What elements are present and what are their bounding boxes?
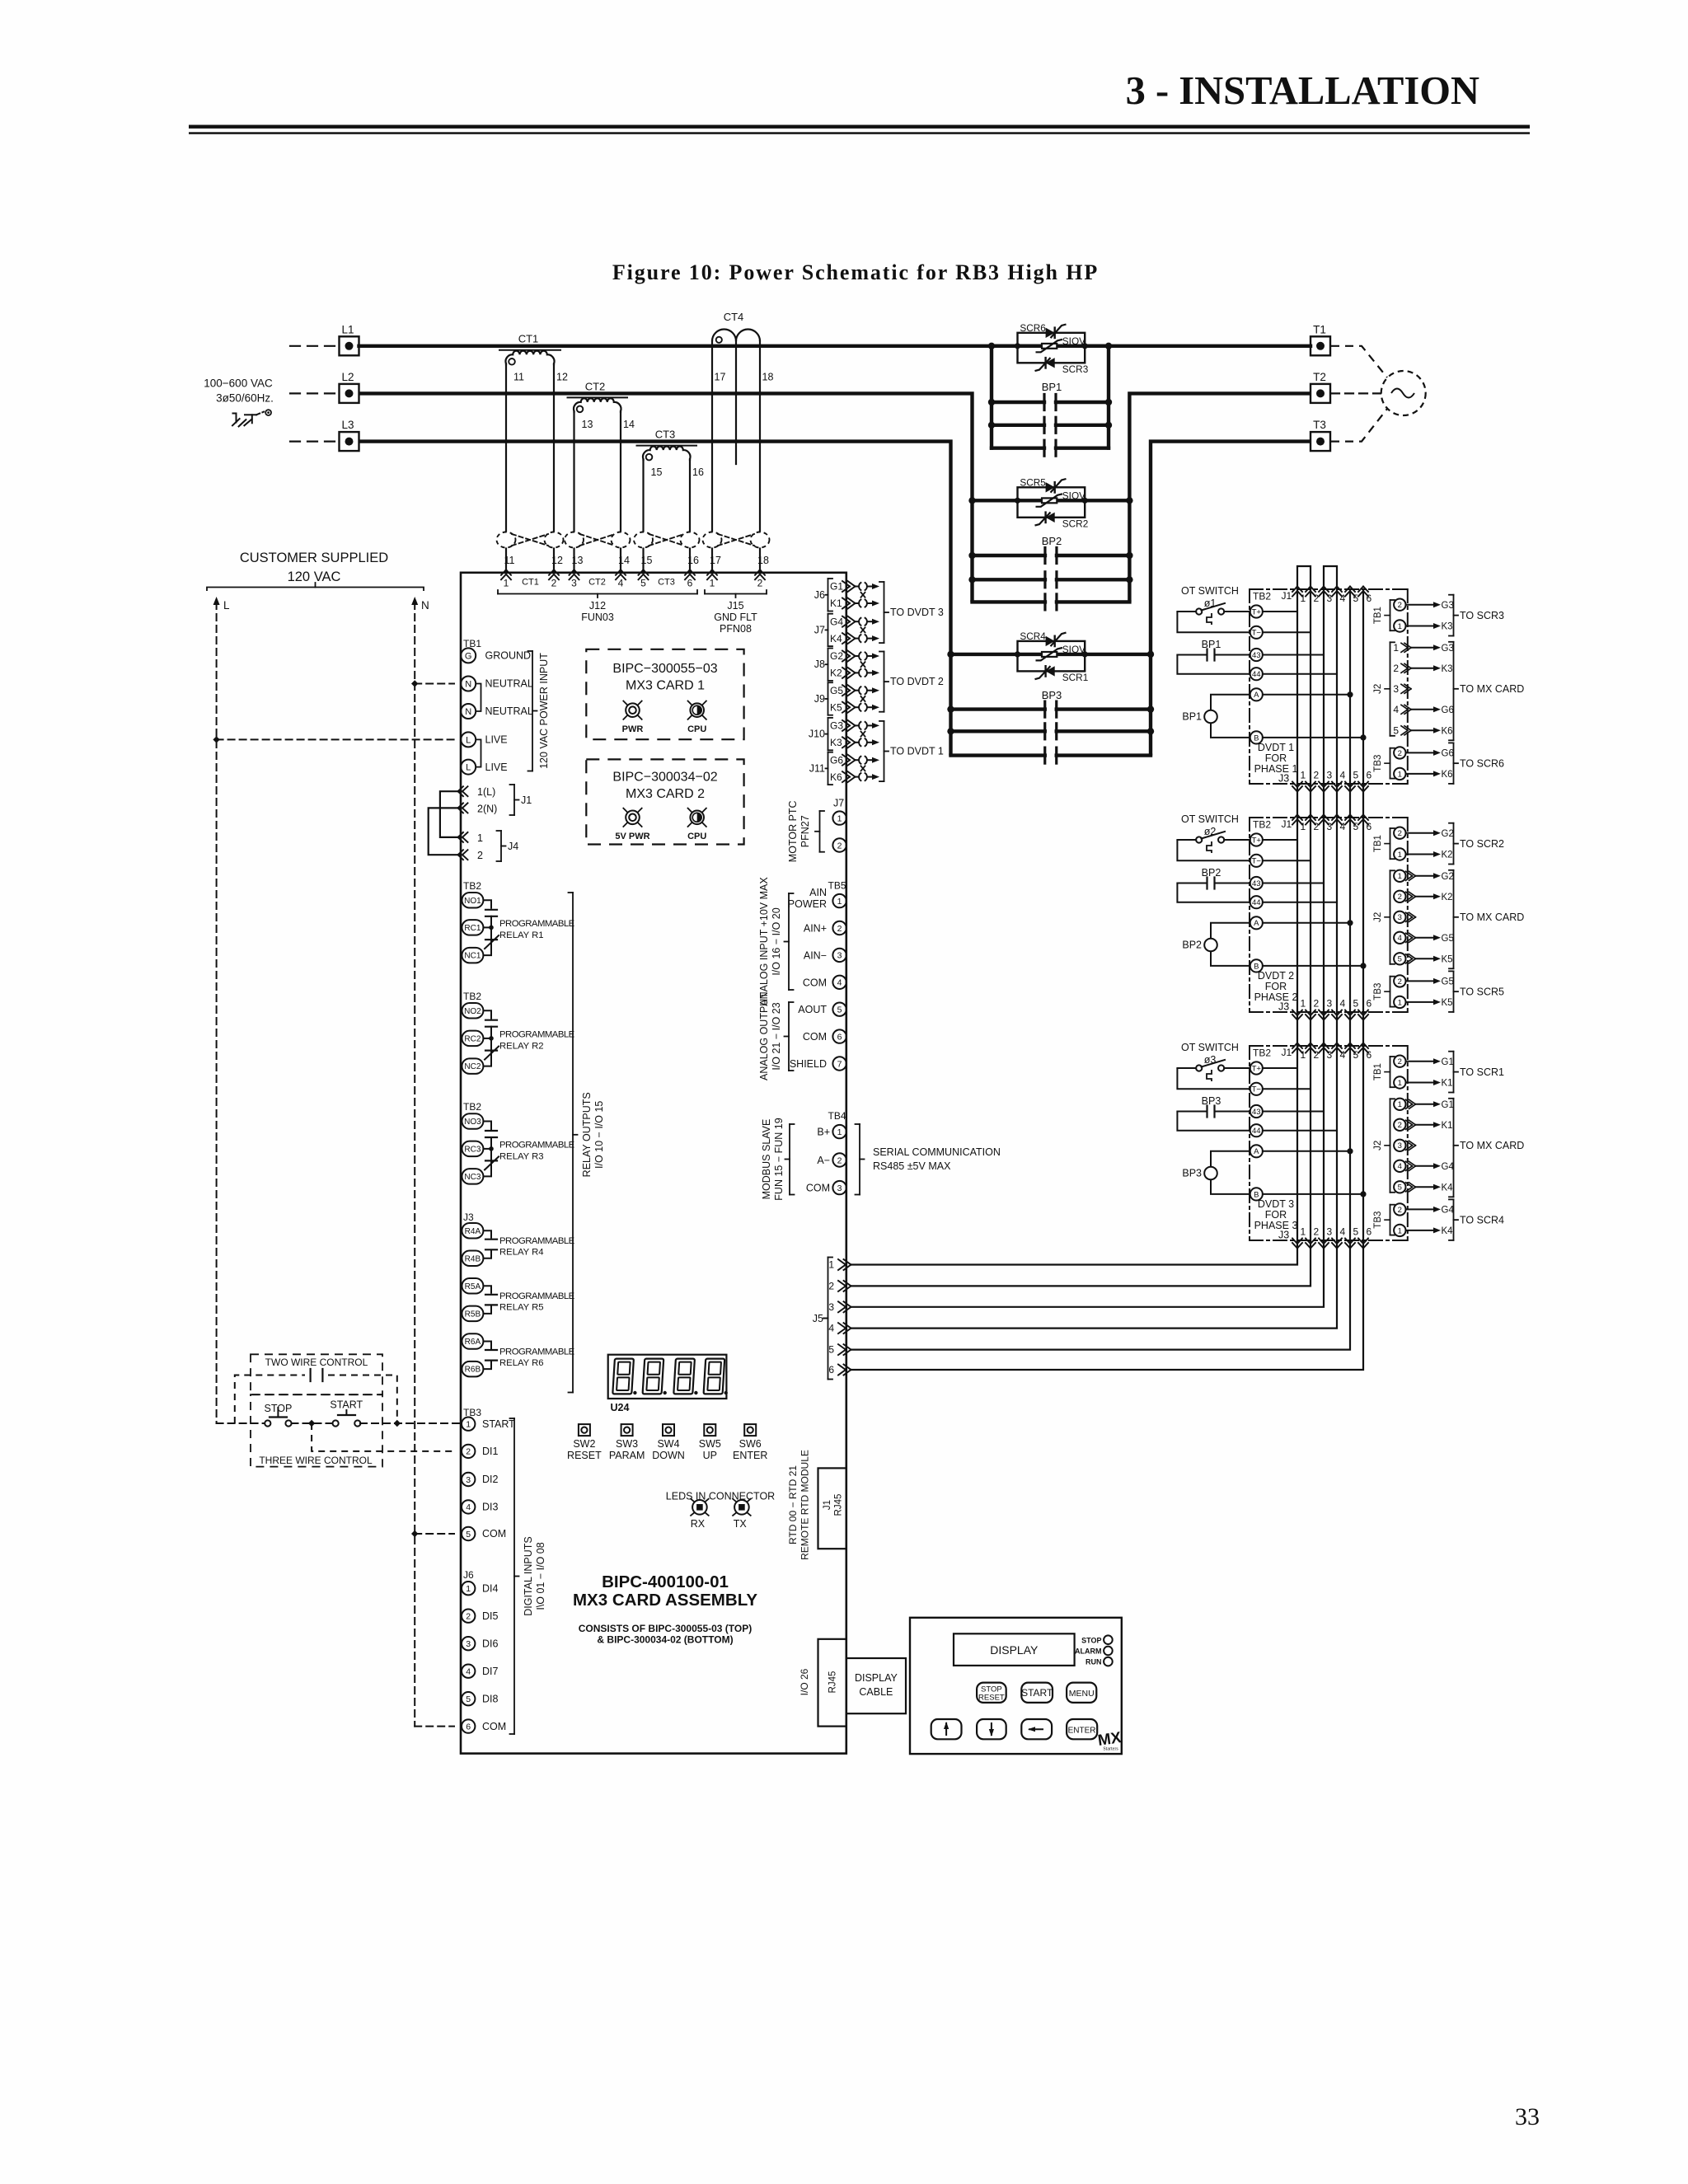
svg-text:TB1: TB1 xyxy=(1373,607,1383,624)
wire J5-5 to DVDT chain xyxy=(851,1240,1351,1350)
svg-text:3: 3 xyxy=(1327,821,1333,832)
svg-text:J3: J3 xyxy=(1278,773,1289,785)
svg-text:K5: K5 xyxy=(1442,955,1453,965)
svg-text:14: 14 xyxy=(623,419,635,430)
wire chain column 3 xyxy=(1323,1046,1325,1240)
contact BP3 pole xyxy=(951,729,1045,733)
svg-text:1: 1 xyxy=(1301,998,1306,1010)
contact BP3 pole xyxy=(951,707,1045,710)
svg-text:G5: G5 xyxy=(830,685,843,696)
svg-text:TX: TX xyxy=(734,1518,748,1530)
svg-text:RTD 00 − RTD 21: RTD 00 − RTD 21 xyxy=(787,1465,799,1544)
pin J12-3 xyxy=(570,569,574,575)
pin TB3-2 xyxy=(1394,747,1405,758)
svg-text:1: 1 xyxy=(1301,1226,1306,1238)
terminal TB1 GROUND xyxy=(461,648,476,663)
svg-text:A: A xyxy=(1254,1147,1259,1156)
wire NO to contact xyxy=(484,900,492,909)
junction diamonds control xyxy=(308,1420,315,1427)
pin J12-4 xyxy=(616,569,621,575)
svg-text:2: 2 xyxy=(477,850,483,861)
pin TB1-1 xyxy=(1394,848,1405,860)
wire 44 to col4 xyxy=(1263,673,1337,675)
ANALOG OUTPUT bracket xyxy=(788,1002,790,1071)
terminal TB2 44 xyxy=(1250,1124,1263,1137)
ANALOG INPUT bracket xyxy=(788,893,790,990)
wire T+ to col1 xyxy=(1263,611,1297,612)
svg-text:TB2: TB2 xyxy=(1253,1047,1271,1059)
svg-text:2: 2 xyxy=(1398,829,1402,838)
svg-text:NO1: NO1 xyxy=(464,897,481,906)
svg-text:K5: K5 xyxy=(1442,998,1453,1008)
svg-text:START: START xyxy=(330,1399,363,1411)
terminal block TB1 outputs xyxy=(1390,828,1391,859)
svg-text:PROGRAMMABLE: PROGRAMMABLE xyxy=(499,919,575,929)
svg-text:K2: K2 xyxy=(1442,851,1453,860)
pin J6-4 DI7 xyxy=(462,1665,475,1678)
svg-text:SW2: SW2 xyxy=(573,1438,595,1450)
svg-text:SW4: SW4 xyxy=(657,1438,679,1450)
connector J15 label xyxy=(705,593,767,595)
wire BP1 right rail xyxy=(1107,346,1110,448)
svg-text:NEUTRAL: NEUTRAL xyxy=(485,678,533,690)
wire CT3 secondary leads 15/16 xyxy=(642,459,644,573)
svg-text:4: 4 xyxy=(466,1502,471,1512)
wire A to col5 xyxy=(1263,922,1350,924)
connector J2 outputs xyxy=(1390,1099,1391,1193)
wire riser to T2 xyxy=(1129,393,1311,602)
pin TB3-1 xyxy=(1394,1225,1405,1236)
jumper L-L xyxy=(476,739,481,766)
svg-text:PROGRAMMABLE: PROGRAMMABLE xyxy=(499,1140,575,1150)
svg-text:1: 1 xyxy=(466,1419,471,1429)
jumper J1 pins1-2 (block1) xyxy=(1297,566,1311,589)
svg-text:TO MX CARD: TO MX CARD xyxy=(1460,912,1524,923)
svg-text:PHASE 2: PHASE 2 xyxy=(1254,991,1298,1003)
terminal T3 xyxy=(1311,432,1330,451)
svg-text:4: 4 xyxy=(1393,704,1399,715)
SCR pair block SCR5/SCR2 with SIOV xyxy=(973,499,1018,502)
svg-text:3 - INSTALLATION: 3 - INSTALLATION xyxy=(1126,69,1479,113)
svg-text:R4A: R4A xyxy=(465,1227,481,1236)
svg-text:1: 1 xyxy=(1301,593,1306,604)
junction dots power section xyxy=(988,343,995,349)
svg-text:SCR1: SCR1 xyxy=(1062,672,1088,683)
svg-text:TB3: TB3 xyxy=(1373,755,1383,772)
svg-text:DI8: DI8 xyxy=(482,1693,499,1704)
terminal TB1 NEUTRAL xyxy=(461,677,476,691)
svg-text:MX3 CARD ASSEMBLY: MX3 CARD ASSEMBLY xyxy=(573,1591,757,1610)
wire chain between block2 and block3 xyxy=(1296,1012,1298,1046)
svg-text:SHIELD: SHIELD xyxy=(790,1058,827,1070)
svg-text:4: 4 xyxy=(1398,1162,1402,1171)
svg-text:TB1: TB1 xyxy=(1373,835,1383,852)
svg-text:1: 1 xyxy=(1398,770,1402,779)
terminal L3 xyxy=(290,440,336,442)
wire chain column 2 xyxy=(1310,589,1311,784)
terminal TB5-6 xyxy=(832,1029,846,1043)
svg-text:1: 1 xyxy=(1398,1226,1402,1235)
wire riser to T3 xyxy=(1151,442,1311,756)
svg-text:1: 1 xyxy=(1398,998,1402,1007)
svg-text:J1: J1 xyxy=(1282,1047,1292,1058)
svg-text:K2: K2 xyxy=(1442,893,1453,902)
svg-text:SCR4: SCR4 xyxy=(1020,630,1046,642)
svg-text:THREE WIRE CONTROL: THREE WIRE CONTROL xyxy=(259,1455,373,1466)
svg-text:RELAY R3: RELAY R3 xyxy=(499,1151,544,1161)
svg-text:J3: J3 xyxy=(463,1212,474,1223)
svg-text:TO SCR2: TO SCR2 xyxy=(1460,838,1504,850)
svg-text:4: 4 xyxy=(1340,593,1346,604)
svg-text:2: 2 xyxy=(828,1280,834,1291)
LED CPU card2 xyxy=(690,811,704,825)
wire 43 to col3 xyxy=(1263,654,1324,656)
svg-text:I/O 10 − I/O 15: I/O 10 − I/O 15 xyxy=(593,1101,605,1169)
svg-text:DIGITAL INPUTS: DIGITAL INPUTS xyxy=(523,1536,534,1616)
svg-text:TO SCR4: TO SCR4 xyxy=(1460,1214,1504,1226)
svg-text:G4: G4 xyxy=(1442,1162,1455,1172)
svg-text:TO SCR3: TO SCR3 xyxy=(1460,610,1504,621)
wire start branch to DI1 (dashed) xyxy=(312,1423,454,1451)
wire chain column 1 xyxy=(1296,589,1298,784)
connector J12 label xyxy=(498,593,697,595)
wire J1.2 to J4.2 xyxy=(429,808,461,855)
svg-text:43: 43 xyxy=(1252,1108,1261,1117)
svg-text:POWER: POWER xyxy=(788,898,827,910)
twisted-pair symbol xyxy=(634,532,653,548)
svg-text:NO3: NO3 xyxy=(464,1118,481,1127)
svg-text:SW3: SW3 xyxy=(616,1438,638,1450)
LED 5V PWR xyxy=(626,811,640,825)
terminal block TB3 outputs xyxy=(1390,1205,1391,1235)
svg-text:DVDT 3: DVDT 3 xyxy=(1258,1198,1294,1210)
ground symbol xyxy=(232,414,237,424)
svg-text:MX3 CARD 2: MX3 CARD 2 xyxy=(626,787,705,801)
svg-text:CT2: CT2 xyxy=(588,578,606,588)
terminal TB2 T− xyxy=(1250,626,1263,639)
svg-text:12: 12 xyxy=(556,372,568,383)
svg-text:CABLE: CABLE xyxy=(859,1686,893,1698)
svg-text:J7: J7 xyxy=(814,624,825,635)
wire chain between block1 and block2 xyxy=(1296,784,1298,818)
svg-text:18: 18 xyxy=(762,372,774,383)
svg-text:START: START xyxy=(482,1418,515,1430)
relay R4 terminals xyxy=(462,1223,483,1239)
wire chain column 4 xyxy=(1336,589,1338,784)
svg-text:4: 4 xyxy=(466,1666,471,1676)
svg-text:G2: G2 xyxy=(1442,829,1454,839)
terminal TB5-7 xyxy=(832,1057,846,1070)
svg-text:15: 15 xyxy=(651,466,663,478)
svg-text:TB2: TB2 xyxy=(463,1101,481,1113)
svg-text:TO SCR5: TO SCR5 xyxy=(1460,986,1504,997)
terminal TB1 LIVE xyxy=(461,760,476,775)
svg-text:L2: L2 xyxy=(341,371,354,383)
svg-text:5: 5 xyxy=(1353,593,1359,604)
wire chain column 3 xyxy=(1323,818,1325,1012)
wire J5-2 to DVDT chain xyxy=(851,1240,1311,1286)
L supply arrow xyxy=(216,602,218,1423)
svg-text:PHASE 1: PHASE 1 xyxy=(1254,763,1298,775)
svg-text:3: 3 xyxy=(1327,1049,1333,1061)
pin J6-3 DI6 xyxy=(462,1637,475,1650)
svg-text:UP: UP xyxy=(703,1450,717,1461)
pin J12-2 xyxy=(549,569,554,575)
wire chain column 4 xyxy=(1336,818,1338,1012)
svg-text:RESET: RESET xyxy=(567,1450,602,1461)
svg-text:3: 3 xyxy=(1327,1226,1333,1238)
svg-text:43: 43 xyxy=(1252,879,1261,888)
svg-text:4: 4 xyxy=(1340,821,1346,832)
svg-text:TO MX CARD: TO MX CARD xyxy=(1460,683,1524,695)
daughter card BIPC-300034-02 MX3 CARD 2 xyxy=(586,759,743,844)
svg-text:L3: L3 xyxy=(341,419,354,431)
svg-text:3: 3 xyxy=(466,1639,471,1649)
connector J2 outputs xyxy=(1390,870,1391,964)
svg-text:BP2: BP2 xyxy=(1202,867,1221,879)
svg-text:ALARM: ALARM xyxy=(1075,1647,1102,1656)
svg-text:CT4: CT4 xyxy=(724,311,744,323)
svg-text:TO DVDT 2: TO DVDT 2 xyxy=(890,676,944,687)
svg-text:G4: G4 xyxy=(1442,1206,1455,1216)
pin J15-2 xyxy=(755,569,760,575)
terminal TB3-2 DI1 xyxy=(462,1445,475,1458)
svg-text:2: 2 xyxy=(1393,663,1399,674)
svg-text:3: 3 xyxy=(466,1475,471,1485)
svg-text:MOTOR PTC: MOTOR PTC xyxy=(787,800,799,862)
pin J6-6 COM xyxy=(462,1719,475,1732)
svg-text:NEUTRAL: NEUTRAL xyxy=(485,705,533,717)
svg-text:DVDT 1: DVDT 1 xyxy=(1258,742,1294,753)
RELAY OUTPUTS group bracket xyxy=(572,893,574,1393)
svg-text:K4: K4 xyxy=(1442,1226,1454,1236)
wire N to TB3 COM (dashed) xyxy=(411,1530,418,1537)
svg-text:DI1: DI1 xyxy=(482,1446,499,1457)
pin J6-1 DI4 xyxy=(462,1582,475,1595)
svg-text:SIOV: SIOV xyxy=(1062,335,1085,347)
7-segment display U24 xyxy=(608,1355,727,1399)
pin J12-6 xyxy=(685,569,690,575)
wire OT switch loop xyxy=(1177,611,1196,612)
svg-text:TO SCR1: TO SCR1 xyxy=(1460,1066,1504,1078)
svg-text:NO2: NO2 xyxy=(464,1007,481,1016)
pin TB1-1 xyxy=(1394,620,1405,631)
svg-text:J6: J6 xyxy=(814,589,825,601)
svg-text:7: 7 xyxy=(837,1059,842,1069)
contact BP2 pole xyxy=(973,554,1045,557)
svg-text:2: 2 xyxy=(551,578,557,589)
wire B to col6 xyxy=(1263,965,1363,967)
svg-text:PWR: PWR xyxy=(622,724,644,734)
svg-text:G6: G6 xyxy=(1442,705,1454,715)
svg-text:G3: G3 xyxy=(1442,644,1454,654)
svg-text:44: 44 xyxy=(1252,670,1261,679)
svg-text:BIPC−300034−02: BIPC−300034−02 xyxy=(612,770,717,784)
contact two-wire xyxy=(310,1369,312,1381)
svg-text:1: 1 xyxy=(1301,770,1306,781)
svg-text:2: 2 xyxy=(1314,1226,1320,1238)
terminal TB2 A xyxy=(1250,1145,1263,1157)
wire chain column 2 xyxy=(1310,1046,1311,1240)
svg-text:2: 2 xyxy=(1314,1049,1320,1061)
svg-text:FOR: FOR xyxy=(1265,752,1287,764)
pin J12-5 xyxy=(639,569,644,575)
wire chain column 1 xyxy=(1296,818,1298,1012)
svg-text:6: 6 xyxy=(837,1032,842,1042)
wire J5-6 to DVDT chain xyxy=(851,1240,1364,1370)
terminal L2 xyxy=(290,392,336,394)
svg-text:4: 4 xyxy=(1340,770,1346,781)
wire L to LIVE (dashed) xyxy=(213,736,219,743)
terminal TB2 A xyxy=(1250,916,1263,929)
wire 44 to col4 xyxy=(1263,1130,1337,1132)
svg-text:CUSTOMER SUPPLIED: CUSTOMER SUPPLIED xyxy=(240,551,388,565)
svg-text:A: A xyxy=(1254,691,1259,700)
motor (dashed) xyxy=(1381,371,1426,415)
terminal TB5-2 xyxy=(832,921,846,935)
varistor SIOV xyxy=(1042,652,1057,657)
svg-text:J2: J2 xyxy=(1373,912,1383,922)
svg-text:ENTER: ENTER xyxy=(1068,1726,1096,1735)
svg-text:R6A: R6A xyxy=(465,1338,481,1347)
svg-text:1: 1 xyxy=(710,578,715,589)
svg-text:4: 4 xyxy=(618,578,624,589)
svg-text:PFN08: PFN08 xyxy=(720,623,752,635)
svg-text:CONSISTS OF BIPC-300055-03 (TO: CONSISTS OF BIPC-300055-03 (TOP) xyxy=(579,1623,753,1634)
wire CT4 leads 17/18 xyxy=(711,341,713,573)
pin TB3-1 xyxy=(1394,768,1405,780)
svg-text:1: 1 xyxy=(1398,1100,1402,1109)
svg-text:3: 3 xyxy=(1398,1141,1402,1151)
svg-text:G6: G6 xyxy=(830,754,843,766)
terminal TB5-3 xyxy=(832,949,846,962)
svg-text:2: 2 xyxy=(466,1447,471,1457)
wire NO to contact xyxy=(484,1122,492,1131)
svg-text:5: 5 xyxy=(837,1005,842,1015)
svg-text:CT3: CT3 xyxy=(655,429,676,441)
label TO DVDT 1 xyxy=(884,721,885,781)
svg-text:I/O 21 − I/O 23: I/O 21 − I/O 23 xyxy=(771,1002,782,1070)
svg-text:1: 1 xyxy=(1393,642,1399,654)
DVDT board 3 (DVDT 3 FOR PHASE 3) xyxy=(1250,1045,1408,1047)
terminal TB2 B xyxy=(1250,959,1263,972)
svg-text:STOP: STOP xyxy=(1081,1636,1101,1644)
svg-text:N: N xyxy=(421,599,429,612)
svg-text:DI6: DI6 xyxy=(482,1638,499,1649)
svg-text:PFN27: PFN27 xyxy=(799,815,811,847)
terminal TB1 NEUTRAL xyxy=(461,704,476,719)
connector J2 outputs xyxy=(1390,642,1391,736)
svg-text:G3: G3 xyxy=(830,720,843,732)
svg-text:1: 1 xyxy=(504,578,509,589)
svg-text:TWO WIRE CONTROL: TWO WIRE CONTROL xyxy=(265,1357,368,1368)
svg-text:2: 2 xyxy=(1398,1206,1402,1215)
svg-text:16: 16 xyxy=(692,466,704,478)
svg-text:1: 1 xyxy=(1398,622,1402,631)
svg-text:COM: COM xyxy=(806,1183,830,1194)
wire 43 to col3 xyxy=(1263,883,1324,884)
daughter card BIPC-300055-03 MX3 CARD 1 xyxy=(586,649,743,739)
svg-text:J15: J15 xyxy=(727,600,743,612)
svg-text:COM: COM xyxy=(803,1031,827,1043)
wire T1 to motor (dashed) xyxy=(1331,346,1387,377)
label TO DVDT 2 xyxy=(884,652,885,712)
svg-text:ENTER: ENTER xyxy=(733,1450,767,1461)
svg-text:G1: G1 xyxy=(1442,1057,1454,1067)
svg-text:J6: J6 xyxy=(463,1569,474,1581)
svg-text:J8: J8 xyxy=(814,658,825,670)
wire J5-3 to DVDT chain xyxy=(851,1240,1325,1307)
svg-text:J2: J2 xyxy=(1373,684,1383,694)
svg-text:K3: K3 xyxy=(1442,664,1453,674)
wire J5-1 to DVDT chain xyxy=(851,1240,1298,1265)
svg-text:2: 2 xyxy=(1314,998,1320,1010)
svg-text:TB3: TB3 xyxy=(463,1407,481,1418)
terminal TB2 44 xyxy=(1250,668,1263,680)
svg-text:17: 17 xyxy=(710,555,721,566)
svg-text:5: 5 xyxy=(1353,1226,1359,1238)
terminal T2 xyxy=(1311,384,1330,403)
svg-text:LEDS IN CONNECTOR: LEDS IN CONNECTOR xyxy=(666,1491,775,1502)
svg-text:3: 3 xyxy=(1393,683,1399,695)
contact BP1 pole xyxy=(992,447,1044,450)
terminal TB2 B xyxy=(1250,731,1263,743)
svg-text:4: 4 xyxy=(1340,1049,1346,1061)
N supply arrow xyxy=(414,602,415,1727)
svg-text:1: 1 xyxy=(837,1127,842,1137)
relay R5 terminals xyxy=(462,1278,483,1294)
svg-text:T+: T+ xyxy=(1252,1064,1262,1073)
svg-text:B+: B+ xyxy=(817,1127,830,1138)
svg-text:6: 6 xyxy=(828,1364,834,1376)
svg-text:I/O 26: I/O 26 xyxy=(799,1668,810,1695)
svg-text:BP1: BP1 xyxy=(1042,381,1062,393)
terminal TB3-4 DI3 xyxy=(462,1500,475,1513)
svg-text:14: 14 xyxy=(618,555,630,566)
wire chain column 6 xyxy=(1362,818,1364,1012)
svg-text:RESET: RESET xyxy=(978,1694,1005,1703)
MX3 card assembly outline xyxy=(461,573,846,1754)
svg-text:RELAY R4: RELAY R4 xyxy=(499,1248,544,1258)
terminal TB2 T+ xyxy=(1250,1062,1263,1074)
svg-text:3: 3 xyxy=(1327,593,1333,604)
svg-text:2: 2 xyxy=(1398,601,1402,610)
wire CT2 secondary leads 13/14 xyxy=(573,411,574,573)
contact BP2 pole xyxy=(973,600,1045,603)
svg-text:1: 1 xyxy=(477,832,483,844)
svg-text:Figure 10: Power Schematic for: Figure 10: Power Schematic for RB3 High … xyxy=(612,260,1099,284)
pin J2-4 xyxy=(1394,1160,1405,1172)
button MENU xyxy=(1067,1683,1096,1703)
svg-text:T−: T− xyxy=(1252,857,1262,866)
svg-text:K3: K3 xyxy=(1442,622,1453,632)
svg-text:SERIAL COMMUNICATION: SERIAL COMMUNICATION xyxy=(873,1146,1001,1158)
svg-text:K1: K1 xyxy=(1442,1121,1453,1131)
svg-text:CPU: CPU xyxy=(687,832,706,841)
svg-text:5: 5 xyxy=(1353,1049,1359,1061)
wire chain column 5 xyxy=(1349,1046,1351,1240)
svg-text:K6: K6 xyxy=(1442,727,1453,737)
button up xyxy=(931,1719,962,1739)
pin TB1-2 xyxy=(1394,1056,1405,1067)
svg-text:4: 4 xyxy=(837,978,842,988)
wire phase L3 bus with drop to SCR4 xyxy=(359,442,951,756)
svg-text:1: 1 xyxy=(466,1584,471,1594)
svg-text:J9: J9 xyxy=(814,693,825,705)
svg-text:K1: K1 xyxy=(830,598,842,609)
svg-text:44: 44 xyxy=(1252,1127,1261,1136)
svg-text:5: 5 xyxy=(466,1694,471,1704)
